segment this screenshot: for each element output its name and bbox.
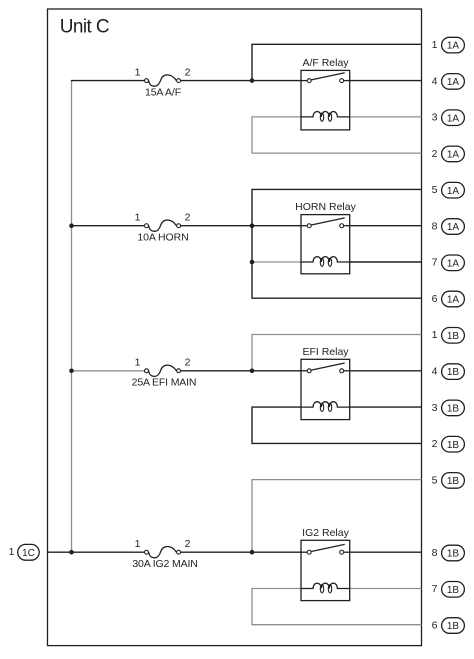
terminal 7 (1B)	[432, 582, 465, 598]
svg-text:1: 1	[135, 538, 141, 550]
junction: relay A switch feed	[250, 78, 255, 83]
fuse F1 15A A/F	[145, 75, 181, 86]
terminal 7 (1A)	[432, 255, 465, 271]
svg-text:1A: 1A	[447, 150, 460, 161]
fuse F2 10A HORN	[145, 220, 181, 231]
wire: relay D switch output to terminal 8(1B) (black)	[350, 551, 422, 553]
svg-text:1B: 1B	[447, 585, 460, 596]
svg-text:5: 5	[432, 184, 438, 196]
terminal 4 (1A)	[432, 74, 465, 90]
svg-text:1B: 1B	[447, 367, 460, 378]
wire: relay A switch output to terminal 4(1A) (black)	[350, 80, 422, 82]
terminal 5 (1A)	[432, 182, 465, 198]
svg-text:1A: 1A	[447, 222, 460, 233]
wire: fuse B output to relay B (black)	[181, 225, 301, 227]
wire: fuse D output to relay D (black)	[181, 551, 301, 553]
wire: relay D coil left loop to terminal 6(1B) (gray)	[252, 589, 422, 625]
wire: relay A coil right to terminal 3(1A) (gray)	[350, 116, 422, 118]
svg-text:7: 7	[432, 583, 438, 595]
terminal 1 (1B)	[432, 328, 465, 344]
wire: terminal 5(1B) branch (gray)	[252, 480, 422, 553]
wire: gray supply bus from fuse row A down to 1C row	[71, 81, 73, 553]
svg-text:8: 8	[432, 547, 438, 559]
svg-text:3: 3	[432, 402, 438, 414]
terminal 2 (1B)	[432, 436, 465, 452]
terminal 6 (1A)	[432, 291, 465, 307]
terminal 8 (1A)	[432, 219, 465, 235]
svg-text:5: 5	[432, 474, 438, 486]
svg-text:1B: 1B	[447, 621, 460, 632]
svg-text:1: 1	[432, 329, 438, 341]
wire: fuse C feed (gray)	[72, 370, 145, 372]
Unit C box	[48, 9, 422, 646]
wire: fuse B feed (black)	[72, 225, 145, 227]
svg-text:1B: 1B	[447, 440, 460, 451]
svg-text:6: 6	[432, 619, 438, 631]
wire: fuse A output to relay A (black)	[181, 80, 301, 82]
svg-text:1B: 1B	[447, 331, 460, 342]
wire: relay C coil left loop to terminal 2(1B) (black)	[252, 407, 422, 443]
svg-text:1: 1	[135, 212, 141, 224]
svg-text:2: 2	[185, 538, 191, 550]
svg-text:1A: 1A	[447, 41, 460, 52]
junction: relay B switch feed	[250, 223, 255, 228]
fuse F4 30A IG2 MAIN	[145, 547, 181, 558]
svg-text:1B: 1B	[447, 549, 460, 560]
wire: relay B coil left stub (gray)	[252, 261, 301, 263]
svg-text:2: 2	[432, 438, 438, 450]
terminal 1 (1C)	[9, 544, 40, 560]
svg-text:25A EFI MAIN: 25A EFI MAIN	[132, 377, 197, 389]
svg-text:Unit C: Unit C	[60, 17, 109, 38]
wire: relay A coil left loop to terminal 2(1A) (gray)	[252, 117, 422, 153]
relay U1 A/F Relay	[301, 57, 350, 130]
junction: bus / 1C line	[69, 550, 74, 555]
svg-text:4: 4	[432, 366, 438, 378]
terminal 8 (1B)	[432, 545, 465, 561]
svg-text:1A: 1A	[447, 77, 460, 88]
wire: relay C coil right to terminal 3(1B) (black)	[350, 406, 422, 408]
terminal 2 (1A)	[432, 146, 465, 162]
terminal 4 (1B)	[432, 364, 465, 380]
relay U3 EFI Relay	[301, 346, 350, 420]
junction: relay C switch feed	[250, 369, 255, 374]
svg-text:1: 1	[9, 546, 15, 558]
wire: terminal 1(1A) branch (black)	[252, 44, 422, 80]
wire: relay C switch output to terminal 4(1B) (black)	[350, 370, 422, 372]
junction: bus / fuse C feed	[69, 369, 74, 374]
svg-text:15A A/F: 15A A/F	[145, 86, 181, 98]
wire: terminal 1(1B) branch (gray)	[252, 335, 422, 371]
junction: relay D switch feed	[250, 550, 255, 555]
svg-text:1: 1	[135, 66, 141, 78]
svg-text:6: 6	[432, 293, 438, 305]
svg-text:30A IG2 MAIN: 30A IG2 MAIN	[132, 558, 197, 570]
svg-text:10A HORN: 10A HORN	[137, 231, 188, 243]
svg-text:1: 1	[135, 357, 141, 369]
wire: fuse C output to relay C (black)	[181, 370, 301, 372]
svg-text:3: 3	[432, 112, 438, 124]
svg-text:1B: 1B	[447, 404, 460, 415]
svg-text:1A: 1A	[447, 186, 460, 197]
svg-text:1C: 1C	[22, 548, 35, 559]
junction: bus / fuse B feed	[69, 223, 74, 228]
svg-text:2: 2	[185, 357, 191, 369]
svg-text:IG2 Relay: IG2 Relay	[302, 527, 349, 539]
terminal 6 (1B)	[432, 618, 465, 634]
svg-text:2: 2	[432, 148, 438, 160]
relay U2 HORN Relay	[295, 201, 356, 274]
svg-text:1: 1	[432, 39, 438, 51]
svg-text:4: 4	[432, 75, 438, 87]
svg-text:1A: 1A	[447, 258, 460, 269]
svg-text:HORN Relay: HORN Relay	[295, 201, 356, 213]
svg-text:1B: 1B	[447, 476, 460, 487]
wire: 1C feed from border to fuse D pin1 (black)	[48, 551, 145, 553]
svg-text:EFI Relay: EFI Relay	[302, 346, 349, 358]
svg-text:8: 8	[432, 220, 438, 232]
wire: relay B switch output to terminal 8(1A) (black)	[350, 225, 422, 227]
svg-text:2: 2	[185, 66, 191, 78]
wire: fuse A feed (black)	[71, 80, 145, 82]
svg-text:2: 2	[185, 212, 191, 224]
svg-text:1A: 1A	[447, 295, 460, 306]
svg-text:A/F Relay: A/F Relay	[302, 57, 349, 69]
svg-text:7: 7	[432, 257, 438, 269]
svg-text:1A: 1A	[447, 113, 460, 124]
fuse F3 25A EFI MAIN	[145, 365, 181, 376]
relay U4 IG2 Relay	[301, 527, 350, 601]
junction: relay B coil feed	[250, 260, 255, 265]
terminal 1 (1A)	[432, 37, 465, 53]
wire: relay B coil right to terminal 7(1A) (black)	[350, 261, 422, 263]
wire: terminal 5(1A) branch + vertical + terminal 6(1A) (black)	[252, 189, 422, 298]
terminal 3 (1B)	[432, 400, 465, 416]
wire: relay D coil right to terminal 7(1B) (gray)	[350, 588, 422, 590]
terminal 3 (1A)	[432, 110, 465, 126]
terminal 5 (1B)	[432, 473, 465, 489]
